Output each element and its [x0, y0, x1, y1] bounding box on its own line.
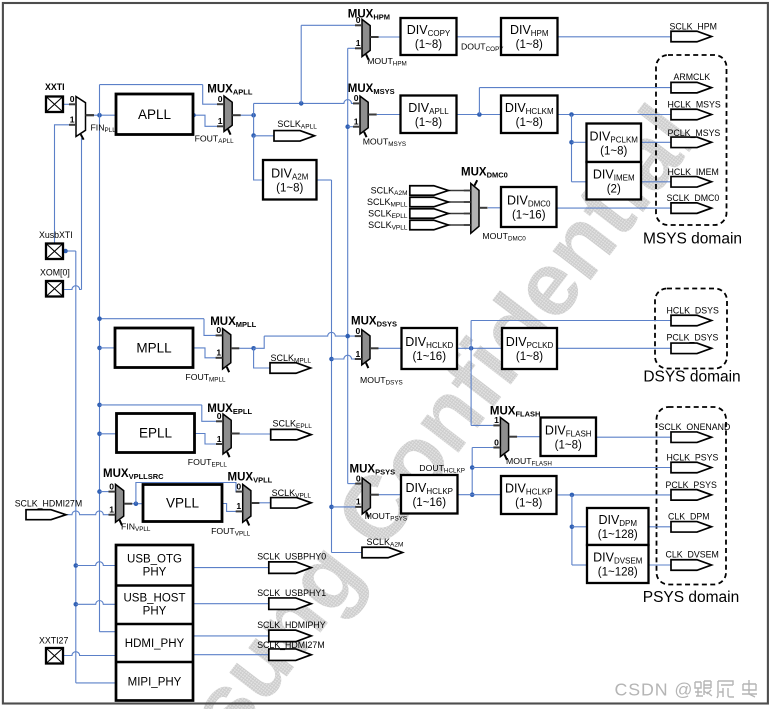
wire MPLL in — [100, 347, 116, 349]
wire FIN mux out stub — [86, 114, 94, 116]
wire HCLK_DSYS up — [470, 321, 472, 349]
wire XusbXTI up to mux in1 — [55, 125, 77, 244]
svg-text:XXTI: XXTI — [45, 82, 65, 92]
flag SCLK_MPLL out — [270, 363, 311, 374]
svg-text:1: 1 — [236, 501, 241, 511]
svg-text:CLK_DVSEM: CLK_DVSEM — [666, 550, 719, 560]
wire XusbXTI right — [64, 250, 76, 252]
wire DIVCOPY to DIVHPM — [457, 36, 502, 38]
svg-text:(1~8): (1~8) — [415, 39, 442, 51]
flag HCLK_PSYS — [671, 462, 712, 473]
flag CLK_DPM — [671, 522, 712, 533]
wire VPLLSRC out — [132, 503, 143, 505]
pin XOM[0] — [46, 281, 63, 297]
wire DIV_A2M out — [317, 179, 332, 181]
wire DVSEM in — [572, 564, 587, 566]
wire XXTI to mux — [63, 103, 76, 105]
svg-text:XXTI27: XXTI27 — [39, 636, 68, 646]
svg-text:SCLK_HPM: SCLK_HPM — [670, 22, 717, 32]
mux MUX_MPLL — [216, 325, 240, 372]
wire IMEM in — [572, 181, 587, 183]
svg-text:USB_OTG: USB_OTG — [127, 554, 182, 566]
junction busC join — [345, 334, 350, 339]
wire DIVHCLKP out — [458, 494, 502, 496]
junction MOUT_APLL — [251, 113, 256, 118]
wire ARMCLK up — [478, 88, 480, 115]
svg-text:SCLK_HDMI27M: SCLK_HDMI27M — [15, 499, 82, 509]
svg-text:XOM[0]: XOM[0] — [40, 268, 70, 278]
svg-text:PCLK_DSYS: PCLK_DSYS — [667, 333, 719, 343]
watermark CSDN — [615, 680, 758, 700]
svg-text:0: 0 — [70, 94, 75, 104]
svg-text:(2): (2) — [607, 183, 621, 195]
svg-text:DSYS domain: DSYS domain — [643, 369, 740, 386]
wire DSYS out — [379, 347, 402, 349]
flag SCLK_USBPHY1 — [269, 598, 312, 610]
wire DIVHPM to SCLK_HPM — [558, 36, 672, 38]
wire APLL out to mux1 — [193, 115, 224, 126]
divider DIV_A2M — [263, 160, 317, 200]
svg-text:MSYS domain: MSYS domain — [643, 231, 742, 248]
wire DIVHCLKM out — [558, 114, 672, 116]
junction VPLLSRC in0 — [97, 489, 102, 494]
wire MOUT_APLL — [241, 114, 254, 116]
block APLL — [116, 94, 193, 135]
pin XusbXTI — [46, 244, 63, 260]
svg-text:(1~8): (1~8) — [555, 439, 582, 451]
junction DSYS in1 — [329, 357, 334, 362]
wire DMC0 in2 — [448, 201, 471, 203]
wire MPLL mux0 elbow — [204, 319, 223, 336]
flag SCLK_HDMI27M in — [26, 510, 66, 520]
svg-text:VPLL: VPLL — [166, 496, 200, 511]
mux MUX_APLL — [217, 94, 241, 135]
wire busC vertical — [347, 48, 349, 483]
svg-text:1: 1 — [356, 497, 361, 507]
svg-text:1: 1 — [356, 349, 361, 359]
wire DPM vertical — [571, 495, 573, 565]
svg-text:HDMI_PHY: HDMI_PHY — [125, 638, 185, 650]
mux MUX_EPLL — [216, 411, 240, 457]
svg-text:USB_HOST: USB_HOST — [124, 593, 186, 605]
wire FLASH out — [517, 436, 540, 438]
MSYS domain box — [656, 55, 727, 225]
divider DIV_HCLKM — [501, 96, 558, 134]
divider DIV_PCLKM — [587, 124, 642, 163]
wire DSYS in1 — [332, 355, 362, 359]
svg-text:(1~16): (1~16) — [412, 497, 446, 509]
svg-text:(1~128): (1~128) — [598, 567, 638, 579]
wire MPLL out to mux1 — [193, 348, 223, 358]
flag SCLK_VPLL src — [410, 220, 449, 230]
svg-text:0: 0 — [109, 481, 114, 491]
junction PCLKM — [569, 112, 574, 117]
flag PCLK_MSYS — [671, 137, 712, 148]
svg-text:1: 1 — [354, 117, 359, 127]
divider DIV_HCLKD — [402, 328, 458, 369]
wire DVSEM out — [649, 564, 672, 566]
wire MOUT_APLL up — [253, 103, 255, 115]
PSYS domain box — [657, 407, 727, 585]
wire PSYS out — [379, 494, 401, 496]
svg-text:HCLK_MSYS: HCLK_MSYS — [668, 100, 721, 110]
flag SCLK_HPM — [671, 31, 712, 42]
svg-text:(1~8): (1~8) — [516, 351, 543, 363]
svg-text:1: 1 — [217, 434, 222, 444]
flag ARMCLK — [671, 82, 712, 93]
wire DPM out — [649, 526, 672, 528]
flag HCLK_DSYS — [671, 315, 712, 326]
DSYS domain box — [655, 289, 727, 369]
svg-text:0: 0 — [218, 94, 223, 104]
mux MUX_MSYS — [353, 93, 377, 137]
wire ARMCLK row — [479, 87, 671, 89]
wire busA vertical — [75, 251, 77, 683]
wire SCLK_APLL down — [253, 115, 255, 135]
wire DIVFLASH out — [596, 436, 671, 438]
svg-text:PCLK_MSYS: PCLK_MSYS — [668, 128, 721, 138]
svg-text:(1~8): (1~8) — [415, 117, 442, 129]
svg-text:APLL: APLL — [138, 107, 172, 122]
wire HPM in1 — [348, 47, 362, 49]
wire XOM select — [64, 286, 82, 290]
wire SCLK_APLL flag feed — [254, 135, 274, 137]
wire SCLK_MPLL down — [254, 348, 270, 368]
block PHY stack — [116, 545, 193, 701]
wire DPM in — [572, 526, 587, 528]
wire USBOTG in — [76, 562, 116, 566]
svg-text:MPLL: MPLL — [136, 340, 172, 355]
flag SCLK_APLL out — [274, 131, 315, 142]
node APLL out — [191, 113, 195, 117]
flag SCLK_EPLL src — [410, 209, 449, 219]
mux MUX_DMC0 — [464, 180, 488, 233]
flag SCLK_HDMI27M out — [269, 649, 312, 661]
junction DPM in — [570, 525, 575, 530]
divider DIV_DPM — [587, 508, 649, 545]
svg-text:SCLK_USBPHY0: SCLK_USBPHY0 — [257, 552, 326, 562]
wire DIVAPLL to DIVHCLKM — [457, 114, 502, 116]
wire APLL mux0 top — [100, 84, 203, 86]
wire busC to PSYS in0 — [348, 483, 363, 485]
wire FLASH in1 vert — [470, 348, 472, 425]
junction EPLL in — [97, 432, 102, 437]
pin XXTI27 — [46, 648, 63, 664]
wire DMC0 in3 — [448, 213, 471, 215]
svg-text:1: 1 — [70, 115, 75, 125]
wire FLASH in0 — [472, 447, 500, 449]
svg-text:PHY: PHY — [143, 567, 167, 579]
flag CLK_DVSEM — [671, 560, 712, 571]
svg-text:EPLL: EPLL — [139, 426, 173, 441]
junction MPLL top — [97, 316, 102, 321]
flag PCLK_DSYS — [671, 343, 712, 354]
wire DMC0 in1 — [448, 190, 471, 192]
wire busD vertical — [331, 180, 333, 553]
wire SCLK_HDMI27M in — [66, 511, 116, 515]
svg-text:SCLK_DMC0: SCLK_DMC0 — [667, 193, 720, 203]
svg-text:(1~8): (1~8) — [516, 39, 543, 51]
wire USBOTG out — [193, 567, 269, 569]
wire MPLL mux0 top — [100, 318, 205, 320]
wire PCLKM vertical — [571, 115, 573, 182]
divider DIV_PCLKD — [502, 328, 557, 369]
wire HCLK_DSYS row — [471, 320, 671, 322]
flag SCLK_EPLL out — [271, 429, 312, 440]
svg-text:1: 1 — [216, 348, 221, 358]
node XusbXTI — [63, 249, 68, 254]
svg-text:(1~8): (1~8) — [515, 498, 542, 510]
block VPLL — [143, 485, 222, 522]
wire busG up — [300, 25, 302, 103]
wire IMEM out — [641, 181, 671, 183]
junction MSYS in1 — [345, 124, 350, 129]
wire EPLL out to mux1 — [195, 434, 224, 445]
junction HCLK_PSYS — [470, 465, 475, 470]
svg-text:PHY: PHY — [143, 606, 167, 618]
divider DIV_HPM — [501, 18, 558, 55]
wire HPM in0 — [301, 24, 362, 26]
flag SCLK_VPLL out — [271, 498, 312, 509]
wire busB vertical — [99, 85, 101, 632]
flag HCLK_IMEM — [671, 177, 712, 188]
svg-text:HCLK_DSYS: HCLK_DSYS — [667, 306, 719, 316]
svg-text:PSYS domain: PSYS domain — [643, 589, 740, 606]
flag SCLK_MPLL src — [410, 197, 449, 207]
wire PCLKM out — [641, 141, 671, 143]
mux MUX_VPLLSRC — [109, 481, 133, 525]
svg-text:(1~8): (1~8) — [600, 145, 627, 157]
wire EPLL in — [100, 433, 117, 435]
wire XOM select up — [81, 138, 83, 290]
svg-text:0: 0 — [494, 437, 499, 447]
wire PCLKM in — [572, 141, 587, 143]
watermark Samsung Confidential — [52, 88, 717, 714]
wire HPM out — [379, 36, 401, 38]
divider DIV_COPY — [401, 18, 457, 55]
wire XXTI27 — [64, 652, 117, 656]
wire MSYS in1 — [348, 126, 360, 128]
junction FINPLL — [97, 113, 102, 118]
svg-text:CLK_DPM: CLK_DPM — [668, 512, 710, 522]
mux MUX_PSYS — [355, 473, 379, 517]
svg-text:HCLK_IMEM: HCLK_IMEM — [668, 167, 719, 177]
divider DIV_IMEM — [587, 162, 642, 200]
wire MOUT_MPLL row — [264, 332, 362, 336]
junction EPLL top — [97, 403, 102, 408]
wire busD to SCLK_A2M flag — [332, 552, 363, 554]
block MPLL — [115, 328, 193, 368]
flag SCLK_USBPHY0 — [269, 562, 312, 574]
junction MPLL in — [97, 346, 102, 351]
junction USBOTG — [74, 563, 79, 568]
wire VPLL out to mux1 — [222, 504, 243, 512]
svg-text:SCLK_ONENAND: SCLK_ONENAND — [659, 422, 731, 432]
junction VPLL in — [134, 501, 139, 506]
wire FLASH in0 vert — [471, 448, 473, 495]
wire SCLK_VPLL — [259, 502, 270, 504]
divider DIV_DMC0 — [501, 187, 557, 227]
wire MSYS in0 row — [254, 100, 360, 104]
svg-text:(1~128): (1~128) — [598, 529, 638, 541]
wire VPLLSRC in0 — [100, 491, 116, 493]
svg-text:1: 1 — [109, 505, 114, 515]
flag SCLK_A2M out — [362, 547, 403, 558]
block EPLL — [117, 414, 195, 453]
svg-text:MIPI_PHY: MIPI_PHY — [128, 677, 182, 689]
junction PCLKM in — [569, 140, 574, 145]
wire PSYS in1 — [332, 506, 363, 508]
mux MUX_FLASH — [493, 415, 517, 460]
junction SCLK_APLL — [251, 133, 256, 138]
pin XXTI — [46, 97, 63, 113]
flag PCLK_PSYS — [671, 490, 712, 501]
divider DIV_FLASH — [541, 418, 597, 457]
wire FLASH in1 — [471, 424, 500, 426]
wire USBHOST in — [76, 601, 116, 605]
wire EPLL mux0 elbow — [202, 405, 223, 421]
wire DIVDMC0 out — [557, 207, 672, 209]
wire MOUT_MPLL up — [254, 336, 265, 348]
junction PSYS in1 — [329, 505, 334, 510]
junction HCLKD — [469, 346, 474, 351]
wire MUXDMC0 out — [488, 207, 501, 209]
flag SCLK_ONENAND — [671, 432, 712, 443]
svg-text:(1~8): (1~8) — [516, 117, 543, 129]
svg-text:SCLK_HDMIPHY: SCLK_HDMIPHY — [257, 620, 326, 630]
wire DMC0 in4 — [448, 224, 471, 226]
wire HDMIPHY out — [193, 635, 269, 637]
wire DIVHCLKD out — [457, 347, 502, 349]
wire HDMI27M out — [193, 654, 269, 656]
svg-text:HCLK_PSYS: HCLK_PSYS — [667, 453, 719, 463]
junction ARMCLK — [477, 112, 482, 117]
wire DIVPCLKD out — [557, 347, 671, 349]
wire FINPLL to APLL — [94, 114, 116, 116]
divider DIV_HCLKP16 — [401, 475, 458, 514]
junction USBHOST — [74, 602, 79, 607]
flag HCLK_MSYS — [671, 109, 712, 120]
svg-text:CSDN @: CSDN @ — [615, 680, 694, 700]
wire VPLL mux0 — [136, 483, 243, 504]
divider DIV_APLL — [401, 96, 457, 134]
mux MUX_HPM — [355, 15, 379, 60]
mux FIN_PLL — [69, 94, 94, 140]
svg-text:(1~16): (1~16) — [512, 210, 546, 222]
svg-text:(1~8): (1~8) — [276, 182, 303, 194]
svg-text:XusbXTI: XusbXTI — [39, 230, 73, 240]
flag SCLK_HDMIPHY — [269, 630, 312, 642]
wire DIVHCLKP8 out — [557, 494, 672, 496]
junction HPM branch — [299, 101, 304, 106]
wire EPLL mux0 top — [100, 404, 202, 406]
mux MUX_VPLL — [236, 481, 260, 525]
wire APLL mux0 elbow — [203, 85, 224, 105]
wire MSYS out — [377, 114, 401, 116]
wire SCLK_EPLL — [240, 433, 271, 435]
mux MUX_DSYS — [355, 326, 379, 368]
flag SCLK_DMC0 — [671, 203, 712, 214]
svg-text:1: 1 — [356, 38, 361, 48]
svg-text:1: 1 — [218, 116, 223, 126]
svg-text:PCLK_PSYS: PCLK_PSYS — [666, 480, 717, 490]
svg-text:SCLK_HDMI27M: SCLK_HDMI27M — [257, 640, 324, 650]
wire USBHOST out — [193, 603, 269, 605]
svg-text:(1~16): (1~16) — [412, 351, 446, 363]
wire MIPI in — [76, 682, 116, 684]
wire MOUT_MPLL — [239, 347, 253, 349]
wire HCLK_PSYS row — [472, 467, 671, 469]
junction DOUT_HCLKP — [470, 492, 475, 497]
svg-text:ARMCLK: ARMCLK — [674, 72, 711, 82]
svg-text:SCLK_USBPHY1: SCLK_USBPHY1 — [257, 588, 326, 598]
wire busB to HDMI_PHY — [100, 631, 117, 633]
flag SCLK_A2M src — [410, 186, 449, 196]
junction MOUT_MPLL — [251, 346, 256, 351]
junction DPM — [570, 493, 575, 498]
wire to DIV_A2M — [254, 136, 263, 181]
divider DIV_DVSEM — [587, 545, 649, 583]
divider DIV_HCLKP8 — [501, 476, 557, 514]
